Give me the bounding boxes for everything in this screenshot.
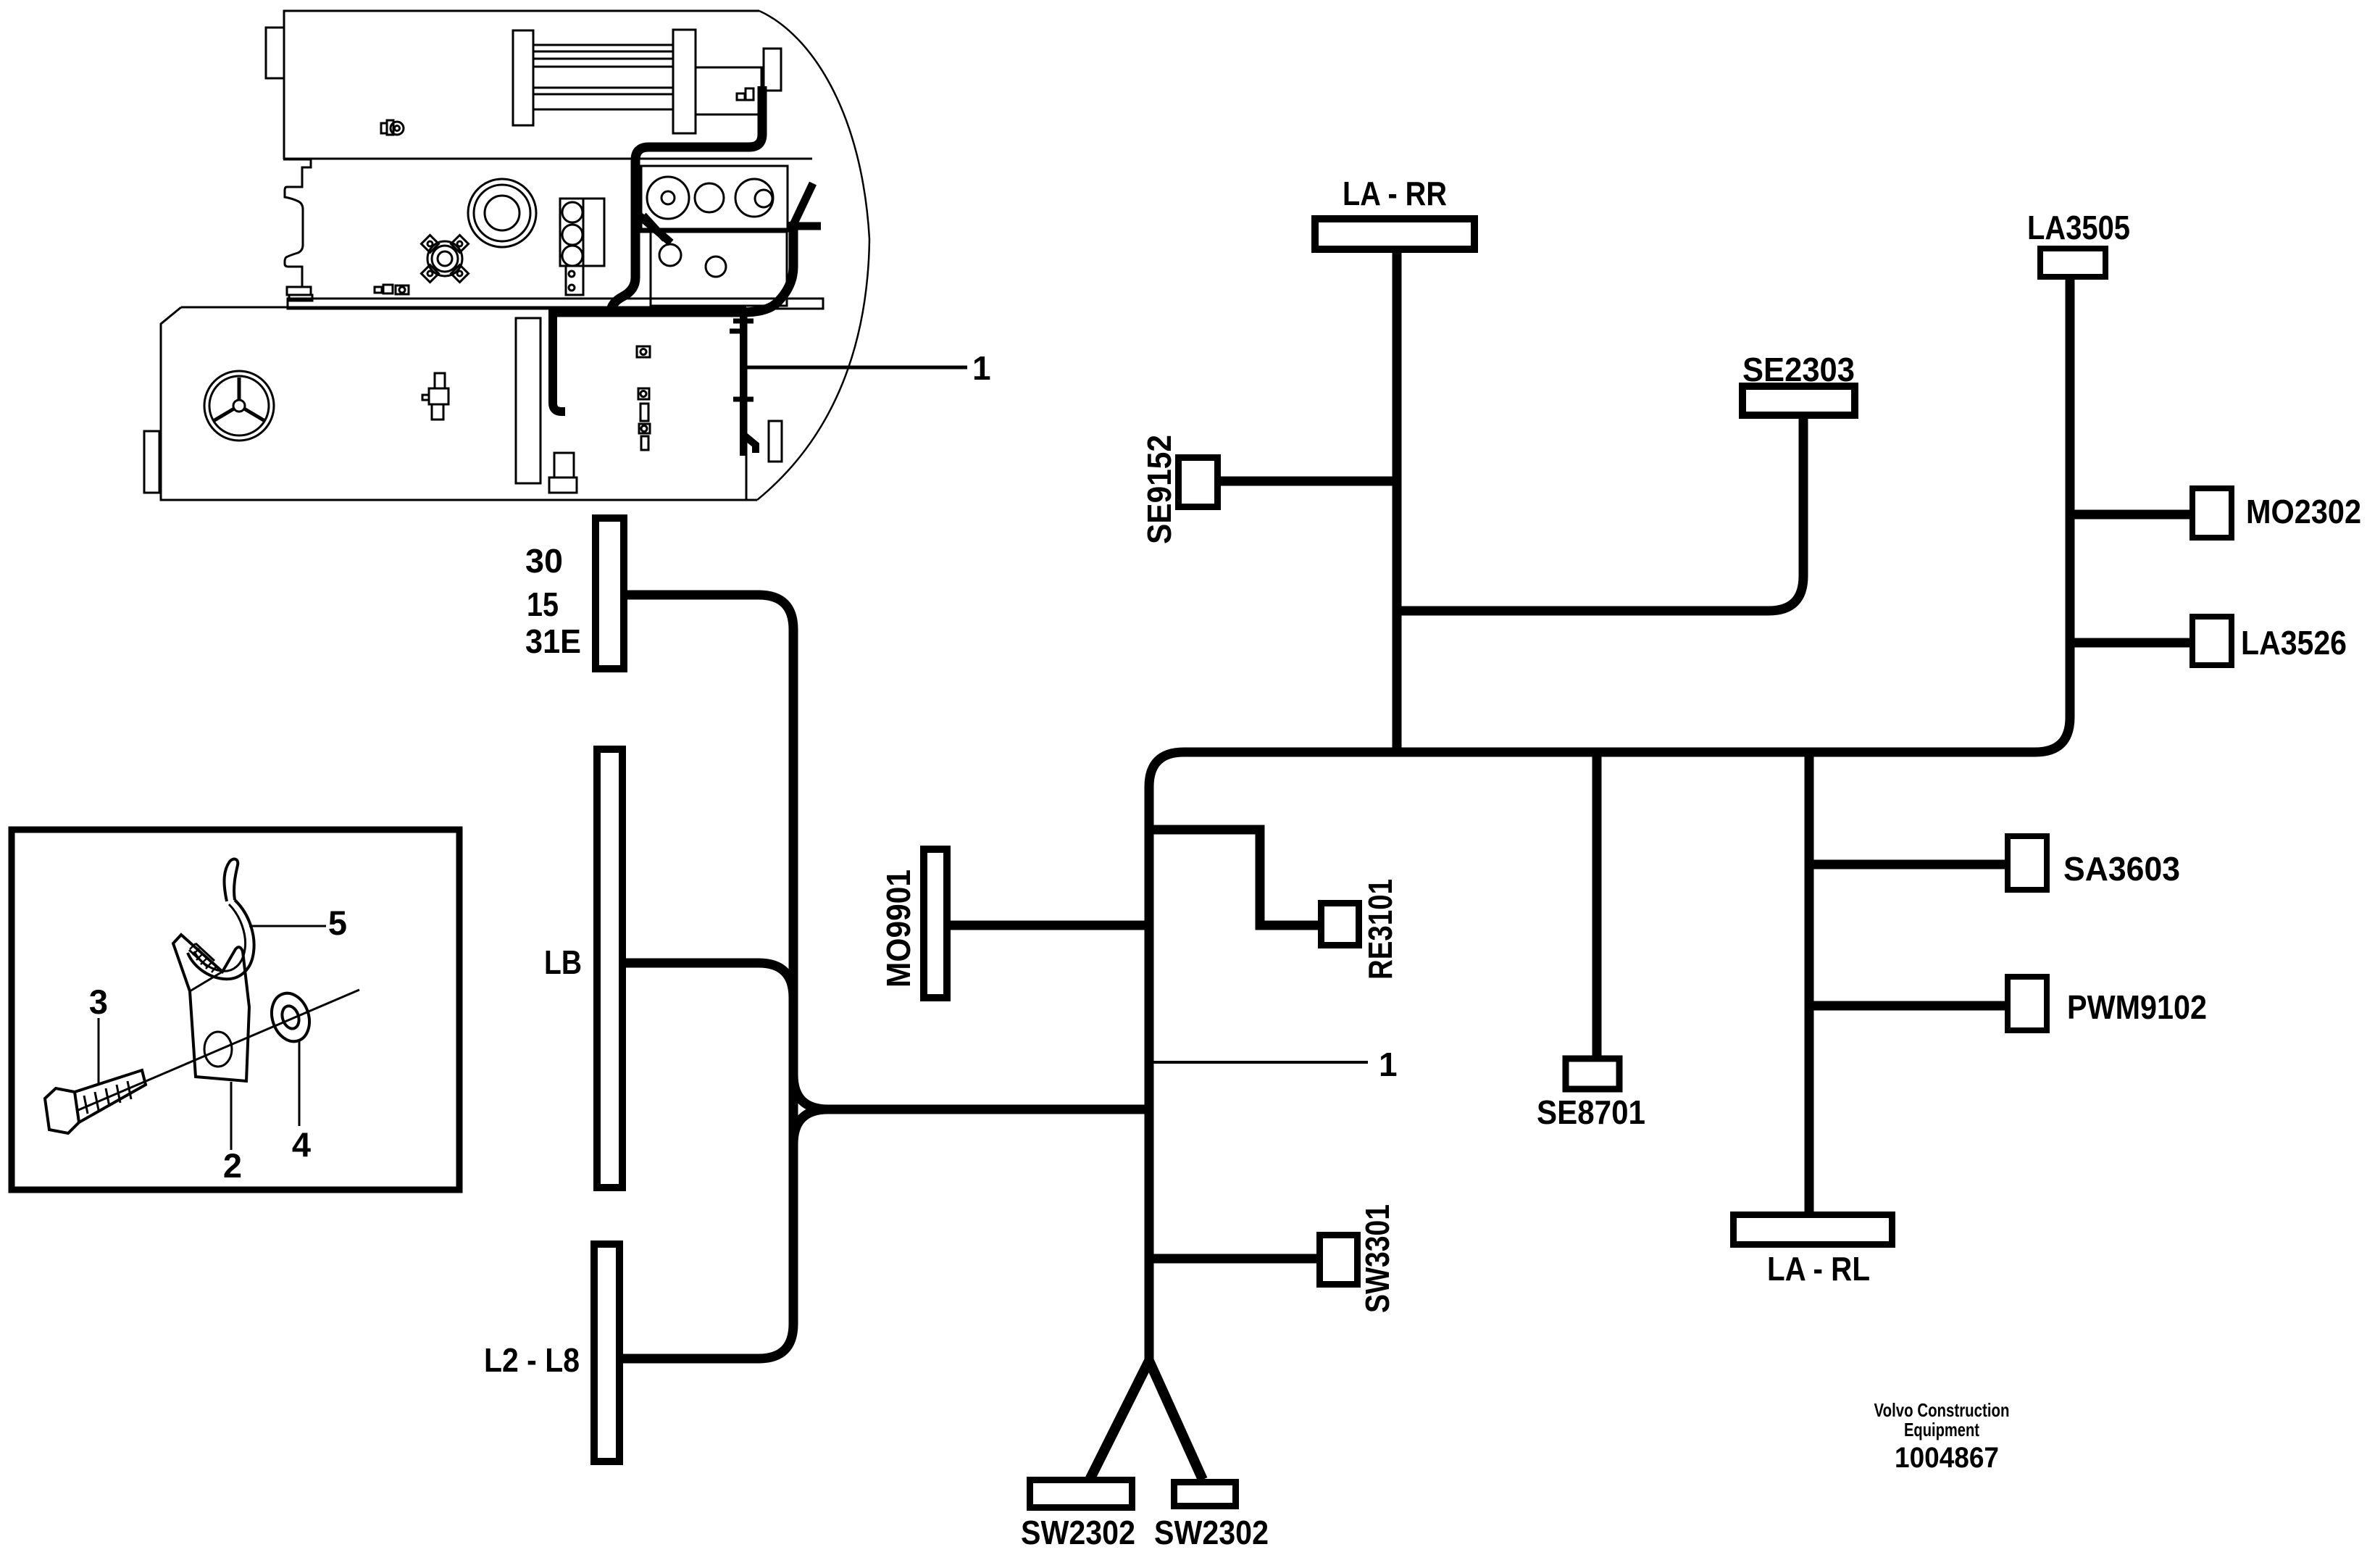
svg-text:SE2303: SE2303 [1742,351,1855,388]
svg-text:L2 - L8: L2 - L8 [484,1341,580,1379]
svg-text:LA3526: LA3526 [2241,624,2347,662]
svg-text:LA3505: LA3505 [2027,209,2130,246]
svg-text:31E: 31E [525,622,581,660]
svg-text:LA - RR: LA - RR [1343,175,1447,212]
svg-text:1004867: 1004867 [1895,1442,1999,1474]
svg-text:SW2302: SW2302 [1154,1514,1269,1551]
svg-text:SA3603: SA3603 [2063,850,2180,888]
svg-text:3: 3 [89,983,108,1021]
svg-text:SW2302: SW2302 [1021,1514,1135,1551]
svg-text:1: 1 [972,349,991,387]
svg-text:Equipment: Equipment [1904,1419,1979,1440]
svg-text:15: 15 [527,585,559,623]
svg-text:MO2302: MO2302 [2246,493,2361,530]
svg-text:Volvo Construction: Volvo Construction [1874,1399,2010,1421]
svg-text:5: 5 [328,904,347,942]
svg-text:4: 4 [292,1125,311,1164]
svg-text:LB: LB [544,943,582,981]
svg-text:PWM9102: PWM9102 [2067,988,2207,1026]
svg-text:1: 1 [1379,1046,1398,1083]
svg-text:RE3101: RE3101 [1361,879,1399,980]
svg-text:SE9152: SE9152 [1140,435,1178,544]
svg-text:LA - RL: LA - RL [1767,1250,1870,1288]
svg-text:MO9901: MO9901 [880,870,917,988]
svg-text:2: 2 [223,1146,242,1185]
svg-text:SE8701: SE8701 [1537,1093,1645,1131]
svg-text:SW3301: SW3301 [1358,1204,1396,1313]
svg-text:30: 30 [525,542,563,580]
